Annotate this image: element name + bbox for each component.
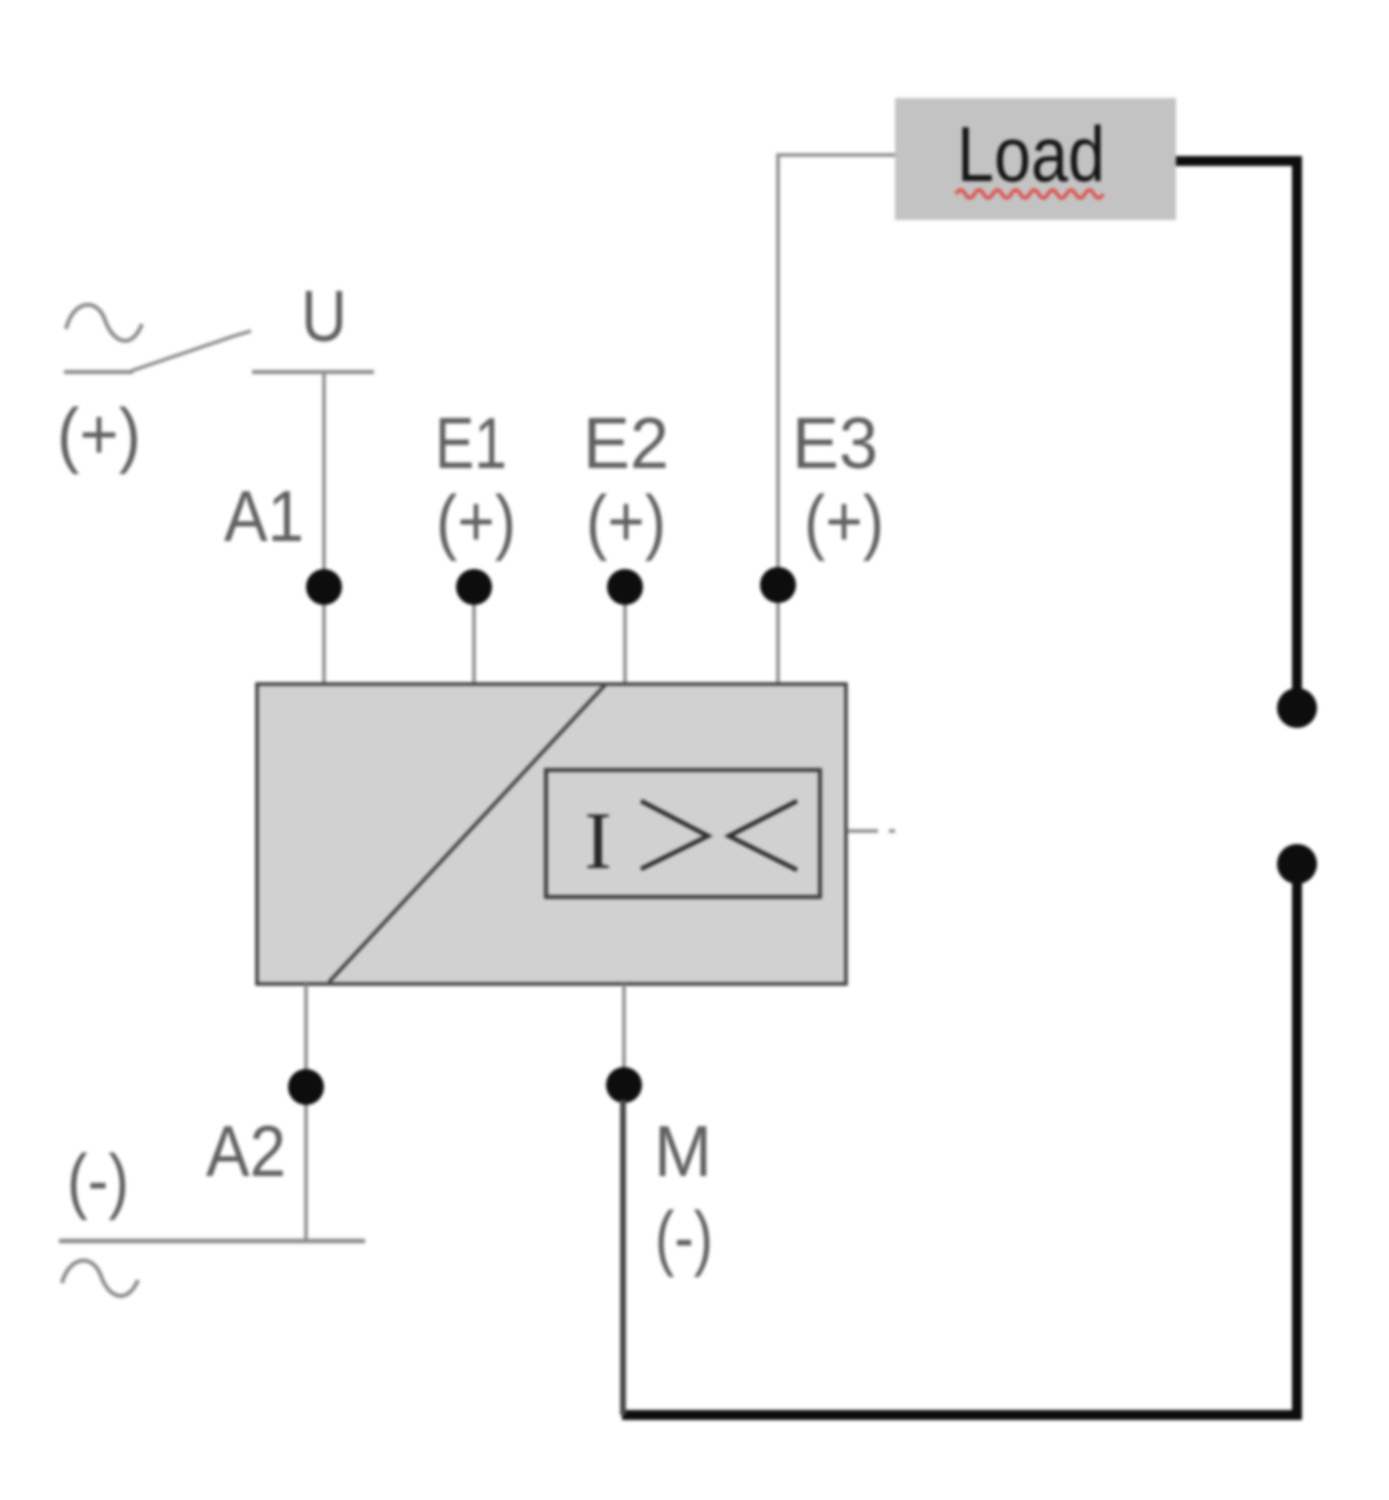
svg-text:(-): (-) [655,1198,713,1278]
node E1 terminal dot [456,569,492,605]
dashed output stub right of box [848,829,895,833]
AC source sine (bottom left) [62,1261,138,1296]
wire E1 stub into box [472,587,476,686]
symbol > of I >< [641,801,708,869]
device diagonal separator [329,685,605,982]
svg-text:E1: E1 [435,404,507,484]
svg-text:I: I [584,795,611,886]
node U terminal bar [252,370,374,374]
node A2 terminal dot [288,1069,324,1105]
wire M down to bottom run [620,1100,626,1415]
svg-text:(-): (-) [67,1141,129,1221]
wire E2 stub into box [623,587,627,686]
svg-text:E2: E2 [583,404,669,484]
wire Load to right rail (thick) [1176,161,1297,689]
negative supply bar [59,1239,365,1244]
wire U to A1 into box [322,372,326,686]
symbol < of I >< [729,801,797,870]
node upper contact dot on right rail [1277,688,1317,728]
svg-text:A2: A2 [206,1112,286,1192]
wire right rail lower segment to bottom (thick) [622,883,1297,1415]
wire E3 to Load (up and right) [778,155,895,686]
wire A2 from box to negative bar [304,984,308,1241]
current-monitor inner box [546,770,820,897]
svg-text:(+): (+) [804,482,884,562]
svg-text:(+): (+) [436,482,516,562]
svg-text:(+): (+) [57,395,141,475]
svg-text:U: U [301,277,347,357]
AC source sine (top left) [66,305,142,341]
node A1 junction dot [306,569,342,605]
node E2 terminal dot [607,569,643,605]
relay device box U1 [257,684,846,984]
wire M from box to dot [622,984,626,1087]
node E3 terminal dot [760,567,796,603]
spellcheck squiggle under Load [956,190,1103,198]
svg-text:A1: A1 [224,477,304,557]
svg-text:M: M [654,1112,712,1192]
svg-text:E3: E3 [792,404,878,484]
switch left contact bar [64,370,133,374]
node lower contact dot on right rail [1277,844,1317,884]
switch blade (open) [131,331,251,371]
svg-text:(+): (+) [586,482,666,562]
node M terminal dot [606,1067,642,1103]
load resistor box [895,98,1176,220]
svg-text:Load: Load [957,110,1105,198]
